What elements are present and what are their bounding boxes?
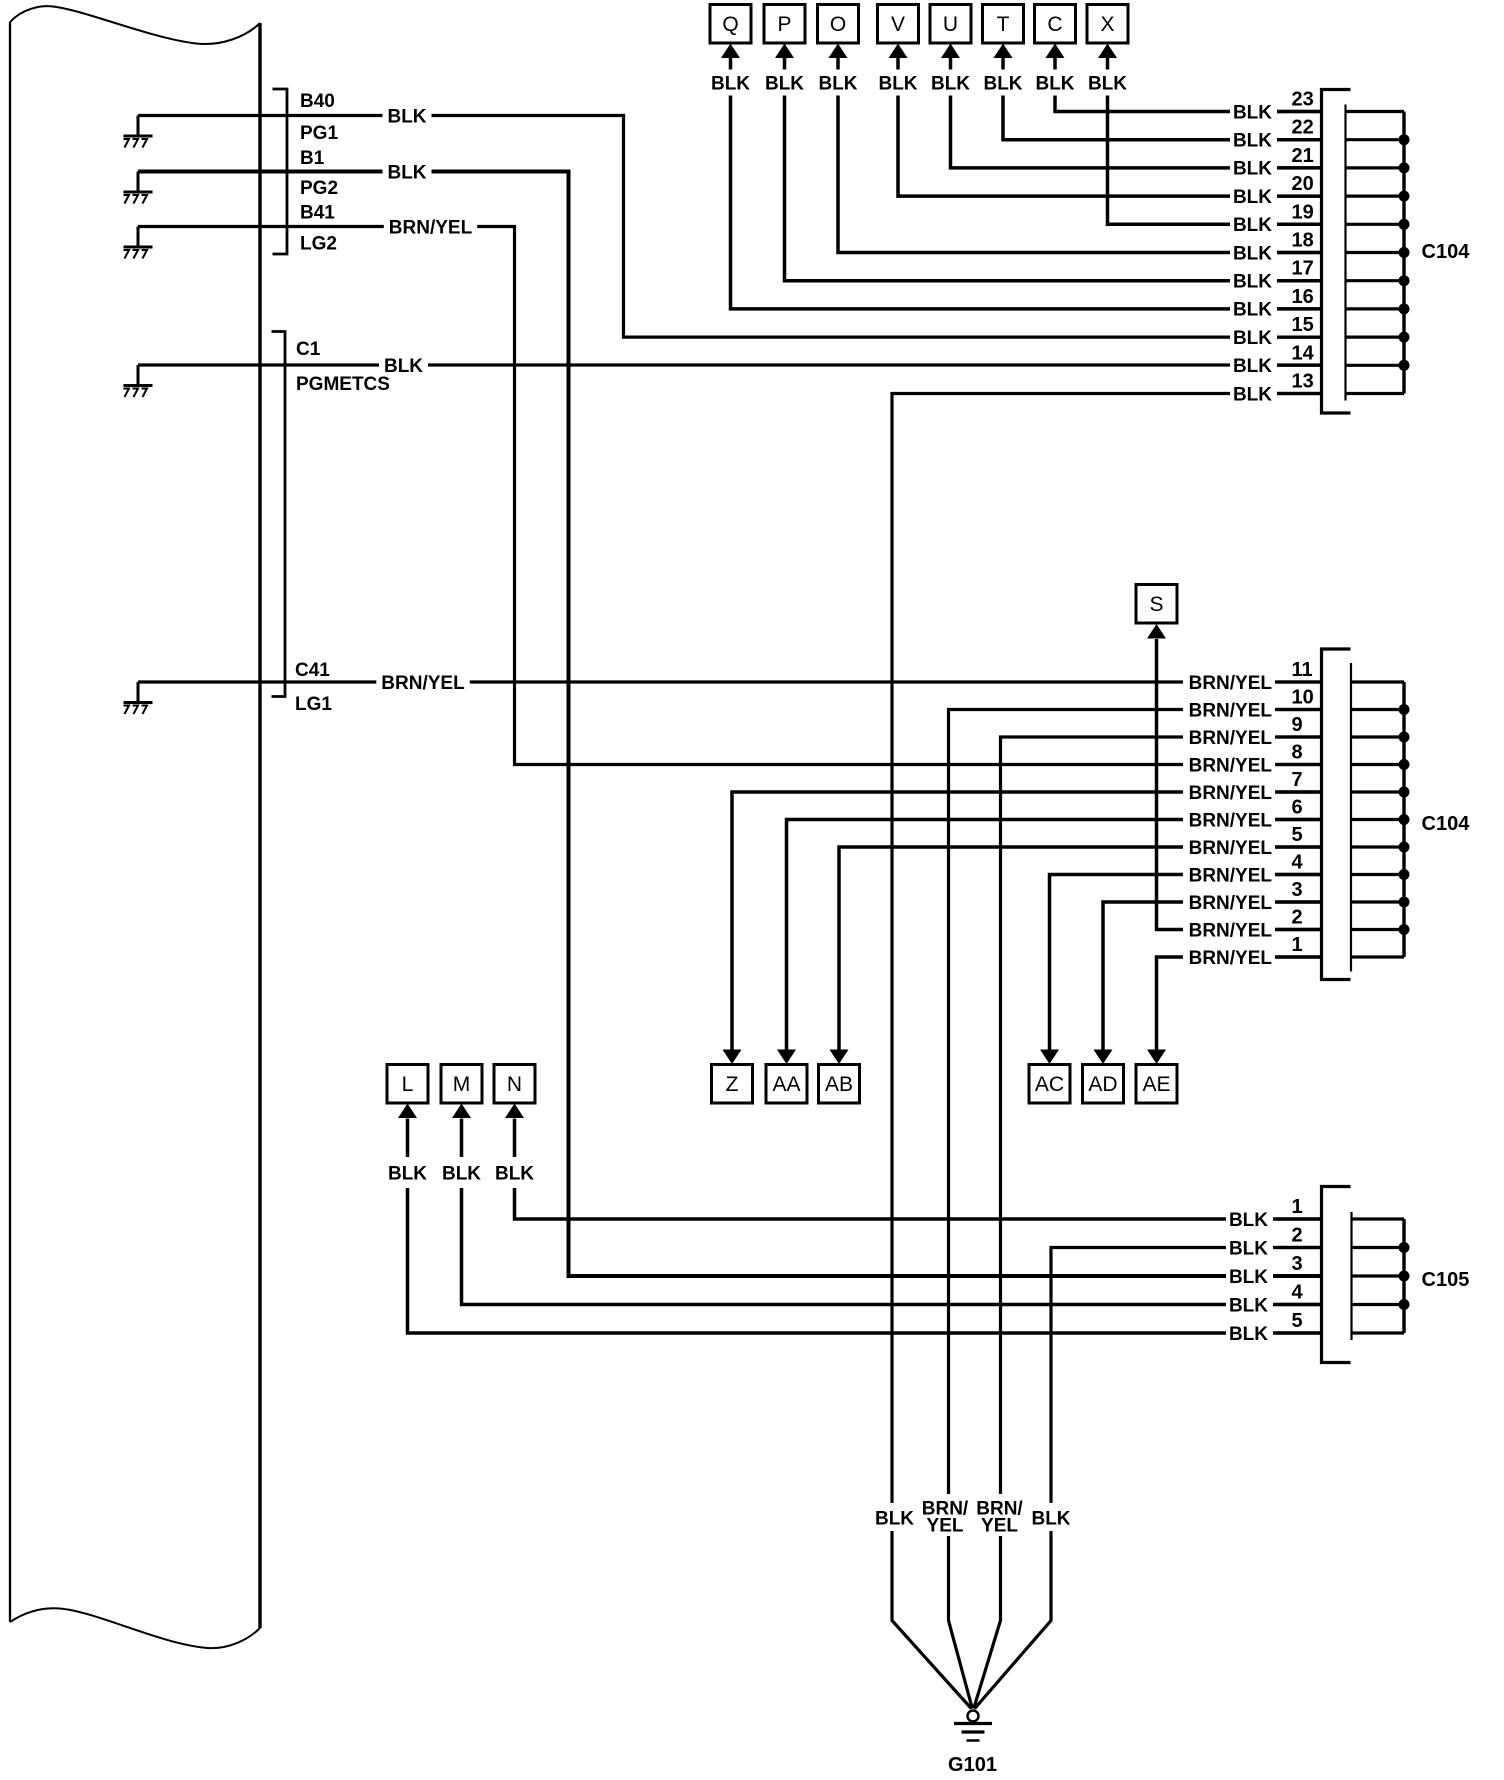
svg-text:23: 23 — [1292, 89, 1314, 111]
connector C104 internal bus — [1402, 112, 1405, 394]
svg-text:10: 10 — [1292, 687, 1314, 709]
wire label BLK (C104 pin 23) — [1230, 101, 1277, 122]
svg-text:BLK: BLK — [983, 73, 1022, 94]
wire label BLK (C104 pin 22) — [1230, 129, 1277, 150]
svg-text:V: V — [891, 13, 905, 36]
connector C104 pin 13 wire — [1277, 392, 1322, 395]
wire label BLK (C105 pin 4) — [1226, 1294, 1273, 1315]
svg-text:BRN/YEL: BRN/YEL — [1189, 920, 1273, 941]
ground symbol PG1 — [137, 116, 140, 137]
svg-text:7: 7 — [1292, 769, 1303, 791]
svg-text:BLK: BLK — [878, 73, 917, 94]
svg-text:BLK: BLK — [931, 73, 970, 94]
wire label BLK (O stem) — [814, 70, 863, 96]
destination box T — [983, 5, 1024, 44]
connector C105 pin 3 wire — [1277, 1274, 1322, 1277]
arrow into box AD — [1094, 1050, 1113, 1065]
wire C104 pin 9 (BRN/YEL) to G101 — [974, 737, 1322, 1709]
wire C41 (BRN/YEL) to C104 pin 11 — [138, 680, 1322, 683]
wire label BLK (M stem) — [437, 1157, 486, 1188]
svg-text:C104: C104 — [1422, 813, 1471, 835]
svg-text:4: 4 — [1292, 1282, 1304, 1304]
connector C104 pin 1 wire — [1277, 955, 1322, 958]
wire C104 pin 5 (BRN/YEL) to AB — [839, 847, 1322, 1050]
connector C104 bracket — [1322, 90, 1351, 414]
svg-text:BLK: BLK — [1233, 131, 1272, 152]
arrow into box AE — [1147, 1050, 1166, 1065]
connector C105 pin 4 wire — [1277, 1303, 1322, 1306]
wire label BLK (pin 13 ground wire) — [873, 1503, 916, 1531]
svg-text:BLK: BLK — [384, 356, 423, 377]
destination box AB — [819, 1065, 860, 1104]
connector C105 pin 2 wire — [1277, 1246, 1322, 1249]
wire label BLK (C104 pin 13) — [1230, 383, 1277, 404]
svg-text:AC: AC — [1035, 1073, 1064, 1096]
svg-text:BLK: BLK — [387, 106, 426, 127]
wire V to C104 pin 20 (BLK) — [898, 58, 1322, 197]
svg-text:BLK: BLK — [1088, 73, 1127, 94]
svg-text:BLK: BLK — [1229, 1324, 1268, 1345]
connector C104 pin 8 wire — [1277, 763, 1322, 766]
junction dot C104 pin 16 — [1399, 303, 1410, 314]
ground G101 symbol — [968, 1711, 979, 1722]
wire label BLK (C stem) — [1031, 70, 1080, 96]
junction dot C104 pin 22 — [1399, 134, 1410, 145]
svg-text:BLK: BLK — [1229, 1210, 1268, 1231]
svg-text:21: 21 — [1292, 145, 1314, 167]
wire C to C104 pin 23 (BLK) — [1055, 58, 1322, 112]
wire label BRN/YEL (C104 pin 4) — [1183, 864, 1275, 885]
ground symbol LG1 — [137, 682, 140, 703]
svg-text:6: 6 — [1292, 797, 1303, 819]
wire Q to C104 pin 16 (BLK) — [731, 58, 1322, 309]
svg-text:3: 3 — [1292, 879, 1303, 901]
connector C105 pin 5 wire — [1277, 1331, 1322, 1334]
junction dot C105 pin 4 — [1399, 1299, 1410, 1310]
wire label BLK (B1 row) — [383, 161, 432, 182]
wire C104 pin 2 to S (BRN/YEL) — [1157, 639, 1322, 930]
junction dot C104 pin 7 — [1399, 787, 1410, 798]
wire label BRN/YEL (B41 row) — [384, 216, 477, 237]
svg-text:BLK: BLK — [765, 73, 804, 94]
wire label BLK (C104 pin 20) — [1230, 186, 1277, 207]
svg-text:BLK: BLK — [875, 1509, 914, 1530]
svg-text:BLK: BLK — [1233, 300, 1272, 321]
connector C104 pin 18 wire — [1277, 251, 1322, 254]
svg-text:8: 8 — [1292, 742, 1303, 764]
wire label BLK (C105 pin 5) — [1226, 1323, 1273, 1344]
svg-text:AB: AB — [825, 1073, 853, 1096]
ground symbol PGMETCS — [137, 365, 140, 386]
connector C104 pin 16 wire — [1277, 307, 1322, 310]
svg-text:15: 15 — [1292, 314, 1314, 336]
arrow into box L — [398, 1104, 417, 1119]
connector C104 pin 10 wire — [1277, 708, 1322, 711]
connector C104 pin 17 wire — [1277, 279, 1322, 282]
wire label BLK (U stem) — [926, 70, 975, 96]
wire label BLK (B40 row) — [383, 105, 432, 126]
svg-text:1: 1 — [1292, 1196, 1303, 1218]
wire N (BLK) to C105 pin 1 — [515, 1119, 1322, 1220]
connector C104 pin 4 wire — [1277, 873, 1322, 876]
wire label BLK (Q stem) — [706, 70, 755, 96]
svg-text:BLK: BLK — [1229, 1267, 1268, 1288]
svg-text:C: C — [1047, 13, 1062, 36]
wire C1 (BLK) to C104 pin 14 — [138, 363, 1322, 366]
wire C104 pin 13 (BLK) to G101 — [892, 394, 1322, 1709]
svg-text:L: L — [402, 1073, 414, 1096]
wire T to C104 pin 22 (BLK) — [1003, 58, 1322, 140]
destination box Z — [712, 1065, 753, 1104]
wire label BLK (L stem) — [383, 1157, 432, 1188]
connector C104 pin 2 wire — [1277, 928, 1322, 931]
arrow into box AA — [777, 1050, 796, 1065]
svg-text:S: S — [1149, 593, 1163, 616]
svg-text:BRN/YEL: BRN/YEL — [1189, 783, 1273, 804]
svg-text:BLK: BLK — [1035, 73, 1074, 94]
svg-text:C1: C1 — [296, 339, 321, 360]
destination box C — [1035, 5, 1076, 44]
svg-text:19: 19 — [1292, 201, 1314, 223]
svg-text:5: 5 — [1292, 824, 1303, 846]
svg-text:BRN/YEL: BRN/YEL — [1189, 728, 1273, 749]
arrow into box P — [775, 44, 794, 59]
arrow into box AC — [1040, 1050, 1059, 1065]
junction dot C104 pin 4 — [1399, 869, 1410, 880]
wire label BLK (C104 pin 21) — [1230, 157, 1277, 178]
connector C104 pin 9 wire — [1277, 735, 1322, 738]
connector C104 internal bus — [1402, 682, 1405, 957]
arrow into box Q — [721, 44, 740, 59]
wire B1 (BLK, heavy) to C105 pin 3 — [138, 172, 1322, 1277]
junction dot C104 pin 8 — [1399, 759, 1410, 770]
svg-text:17: 17 — [1292, 258, 1314, 280]
svg-text:P: P — [777, 13, 791, 36]
connector C104 pin 15 wire — [1277, 336, 1322, 339]
wire label BRN/YEL (C104 pin 3) — [1183, 892, 1275, 913]
wire C104 pin 1 (BRN/YEL) to AE — [1157, 957, 1322, 1050]
destination box AE — [1136, 1065, 1177, 1104]
svg-text:BRN/YEL: BRN/YEL — [1189, 865, 1273, 886]
svg-text:YEL: YEL — [927, 1516, 964, 1537]
svg-text:T: T — [997, 13, 1010, 36]
svg-text:BRN/YEL: BRN/YEL — [1189, 700, 1273, 721]
wire C104 pin 6 (BRN/YEL) to AA — [787, 820, 1322, 1051]
svg-text:22: 22 — [1292, 117, 1314, 139]
svg-text:3: 3 — [1292, 1253, 1303, 1275]
svg-text:16: 16 — [1292, 286, 1314, 308]
svg-text:G101: G101 — [948, 1754, 997, 1776]
svg-text:AE: AE — [1142, 1073, 1170, 1096]
arrow into box M — [452, 1104, 471, 1119]
svg-text:9: 9 — [1292, 714, 1303, 736]
wire label BLK (C104 pin 18) — [1230, 242, 1277, 263]
connector C104 inner face line — [1344, 105, 1346, 401]
wire label BRN/YEL (C104 pin 9) — [1183, 727, 1275, 748]
arrow into box S — [1147, 624, 1166, 639]
wire label BLK (N stem) — [490, 1157, 539, 1188]
connector C105 internal bus — [1402, 1219, 1405, 1333]
svg-text:4: 4 — [1292, 852, 1304, 874]
arrow into box C — [1046, 44, 1065, 59]
wire label BLK (T stem) — [979, 70, 1028, 96]
svg-text:BLK: BLK — [1229, 1295, 1268, 1316]
svg-text:5: 5 — [1292, 1310, 1303, 1332]
junction dot C104 pin 19 — [1399, 219, 1410, 230]
svg-text:18: 18 — [1292, 230, 1314, 252]
wire C104 pin 4 (BRN/YEL) to AC — [1050, 875, 1322, 1051]
svg-text:BLK: BLK — [387, 162, 426, 183]
svg-text:C41: C41 — [295, 660, 330, 681]
destination box P — [764, 5, 805, 44]
svg-text:BLK: BLK — [1229, 1238, 1268, 1259]
svg-text:2: 2 — [1292, 907, 1303, 929]
svg-text:BRN/YEL: BRN/YEL — [381, 673, 465, 694]
pin-group bracket (C1/C41) — [272, 332, 286, 697]
wire label BRN/YEL (C104 pin 6) — [1183, 809, 1275, 830]
wire label BLK (C104 pin 15) — [1230, 327, 1277, 348]
wire label BRN/YEL (C104 pin 10) — [1183, 699, 1275, 720]
wire label BRN/YEL (C41 row) — [376, 672, 469, 693]
arrow into box N — [505, 1104, 524, 1119]
wire label BLK (C105 pin 3) — [1226, 1266, 1273, 1287]
svg-text:BLK: BLK — [1233, 102, 1272, 123]
wire label BLK (X stem) — [1083, 70, 1132, 96]
junction dot C105 pin 3 — [1399, 1271, 1410, 1282]
svg-text:BLK: BLK — [1233, 356, 1272, 377]
svg-text:BLK: BLK — [1031, 1509, 1070, 1530]
wire C104 pin 3 (BRN/YEL) to AD — [1103, 902, 1322, 1050]
svg-text:BRN/YEL: BRN/YEL — [1189, 810, 1273, 831]
svg-text:LG1: LG1 — [295, 694, 332, 715]
wire label BLK (C104 pin 16) — [1230, 298, 1277, 319]
svg-text:BRN/YEL: BRN/YEL — [389, 217, 473, 238]
wire label BRN/YEL (C104 pin 7) — [1183, 782, 1275, 803]
wire B41 (BRN/YEL) to C104 pin 8 — [138, 227, 1322, 765]
svg-text:C105: C105 — [1422, 1269, 1470, 1291]
connector C104 pin 7 wire — [1277, 790, 1322, 793]
wire M (BLK) to C105 pin 4 — [462, 1119, 1322, 1305]
arrow into box T — [994, 44, 1013, 59]
svg-text:BLK: BLK — [1233, 272, 1272, 293]
pin-group bracket (B40/B1/B41) — [273, 89, 288, 254]
wire label BRN/YEL (pin 10 ground wire) — [923, 1494, 968, 1536]
svg-text:2: 2 — [1292, 1225, 1303, 1247]
svg-text:BRN/YEL: BRN/YEL — [1189, 673, 1273, 694]
connector C104 pin 3 wire — [1277, 900, 1322, 903]
connector C105 pin 1 wire — [1277, 1217, 1322, 1220]
connector C104 pin 21 wire — [1277, 166, 1322, 169]
wire C104 pin 10 (BRN/YEL) to G101 — [949, 710, 1322, 1709]
wire label BLK (C105 pin 2) — [1226, 1237, 1273, 1258]
wire label BRN/YEL (C104 pin 11) — [1183, 672, 1275, 693]
svg-text:BLK: BLK — [388, 1163, 427, 1184]
junction dot C104 pin 2 — [1399, 924, 1410, 935]
svg-text:BRN/YEL: BRN/YEL — [1189, 893, 1273, 914]
svg-text:20: 20 — [1292, 173, 1314, 195]
arrow into box Z — [723, 1050, 742, 1065]
svg-text:AD: AD — [1088, 1073, 1117, 1096]
svg-text:BLK: BLK — [1233, 328, 1272, 349]
svg-text:13: 13 — [1292, 371, 1314, 393]
wire C105 pin 2 (BLK) to G101 — [975, 1248, 1322, 1709]
destination box AA — [766, 1065, 807, 1104]
wire label BLK (C104 pin 14) — [1230, 355, 1277, 376]
wire U to C104 pin 21 (BLK) — [951, 58, 1322, 168]
svg-text:BRN/YEL: BRN/YEL — [1189, 948, 1273, 969]
svg-text:O: O — [830, 13, 846, 36]
destination box AD — [1083, 1065, 1124, 1104]
svg-text:B41: B41 — [300, 203, 335, 224]
svg-text:YEL: YEL — [981, 1516, 1018, 1537]
connector C104 pin 22 wire — [1277, 138, 1322, 141]
wire C104 pin 7 (BRN/YEL) to Z — [732, 792, 1322, 1050]
wire P to C104 pin 17 (BLK) — [785, 58, 1322, 281]
connector C104 pin 14 wire — [1277, 364, 1322, 367]
svg-text:14: 14 — [1292, 342, 1315, 364]
wire label BLK (C104 pin 17) — [1230, 270, 1277, 291]
svg-text:B40: B40 — [300, 91, 335, 112]
svg-text:11: 11 — [1292, 659, 1313, 681]
wire label BLK (P stem) — [760, 70, 809, 96]
svg-text:Z: Z — [726, 1073, 739, 1096]
wire X to C104 pin 19 (BLK) — [1108, 58, 1322, 225]
wire label BRN/YEL (C104 pin 5) — [1183, 837, 1275, 858]
svg-text:C104: C104 — [1422, 241, 1471, 263]
svg-text:BLK: BLK — [1233, 243, 1272, 264]
junction dot C104 pin 14 — [1399, 360, 1410, 371]
svg-text:U: U — [943, 13, 958, 36]
svg-text:BLK: BLK — [1233, 159, 1272, 180]
svg-text:M: M — [453, 1073, 471, 1096]
svg-text:PGMETCS: PGMETCS — [296, 374, 390, 395]
junction dot C104 pin 17 — [1399, 275, 1410, 286]
svg-text:Q: Q — [722, 13, 738, 36]
junction dot C104 pin 10 — [1399, 704, 1410, 715]
svg-text:N: N — [507, 1073, 522, 1096]
connector C104 pin 6 wire — [1277, 818, 1322, 821]
arrow into box U — [941, 44, 960, 59]
junction dot C104 pin 18 — [1399, 247, 1410, 258]
junction dot C104 pin 3 — [1399, 897, 1410, 908]
arrow into box X — [1098, 44, 1117, 59]
destination box V — [878, 5, 919, 44]
destination box O — [818, 5, 859, 44]
wire label BLK (C1 row) — [379, 355, 428, 376]
arrow into box O — [829, 44, 848, 59]
arrow into box V — [889, 44, 908, 59]
junction dot C104 pin 20 — [1399, 191, 1410, 202]
destination box Q — [710, 5, 751, 44]
destination box AC — [1029, 1065, 1070, 1104]
junction dot C104 pin 9 — [1399, 732, 1410, 743]
connector C104 pin 23 wire — [1277, 110, 1322, 113]
arrow into box AB — [830, 1050, 849, 1065]
ground symbol PG2 — [137, 172, 140, 193]
wire label BRN/YEL (C104 pin 1) — [1183, 947, 1275, 968]
junction dot C105 pin 2 — [1399, 1242, 1410, 1253]
wire L (BLK) to C105 pin 5 — [408, 1119, 1322, 1334]
svg-text:B1: B1 — [300, 148, 325, 169]
destination box S — [1136, 585, 1177, 624]
svg-text:BRN/YEL: BRN/YEL — [1189, 755, 1273, 776]
connector C104 pin 5 wire — [1277, 845, 1322, 848]
svg-text:PG2: PG2 — [300, 178, 338, 199]
connector C104 pin 20 wire — [1277, 195, 1322, 198]
junction dot C104 pin 15 — [1399, 332, 1410, 343]
svg-text:BLK: BLK — [711, 73, 750, 94]
junction dot C104 pin 5 — [1399, 842, 1410, 853]
svg-text:BLK: BLK — [1233, 384, 1272, 405]
wire label BLK (C105 pin 2 ground wire) — [1030, 1503, 1073, 1531]
connector C104 bracket — [1322, 649, 1351, 980]
destination box M — [441, 1065, 482, 1104]
connector C104 pin 19 wire — [1277, 223, 1322, 226]
wire label BRN/YEL (C104 pin 8) — [1183, 754, 1275, 775]
svg-text:BLK: BLK — [1233, 215, 1272, 236]
svg-text:BLK: BLK — [442, 1163, 481, 1184]
wire B40 (BLK) to C104 pin 15 — [138, 116, 1322, 338]
wire label BLK (V stem) — [874, 70, 923, 96]
svg-text:BLK: BLK — [1233, 187, 1272, 208]
connector C105 inner face line — [1350, 1212, 1352, 1340]
ground symbol LG2 — [137, 227, 140, 248]
wire label BRN/YEL (C104 pin 2) — [1183, 919, 1275, 940]
connector C104 inner face line — [1350, 663, 1352, 972]
destination box U — [930, 5, 971, 44]
destination box N — [494, 1065, 535, 1104]
svg-text:X: X — [1100, 13, 1114, 36]
wire label BLK (C105 pin 1) — [1226, 1209, 1273, 1230]
wire O to C104 pin 18 (BLK) — [838, 58, 1322, 253]
svg-text:AA: AA — [772, 1073, 800, 1096]
junction dot C104 pin 6 — [1399, 814, 1410, 825]
connector C105 bracket — [1322, 1187, 1351, 1363]
svg-text:BLK: BLK — [495, 1163, 534, 1184]
svg-text:PG1: PG1 — [300, 123, 338, 144]
svg-text:1: 1 — [1292, 934, 1303, 956]
svg-text:BLK: BLK — [818, 73, 857, 94]
svg-text:LG2: LG2 — [300, 234, 337, 255]
svg-text:BRN/YEL: BRN/YEL — [1189, 838, 1273, 859]
destination box X — [1087, 5, 1128, 44]
wire label BRN/YEL (pin 9 ground wire) — [977, 1494, 1022, 1536]
connector C104 pin 11 wire — [1277, 680, 1322, 683]
wire label BLK (C104 pin 19) — [1230, 214, 1277, 235]
destination box L — [387, 1065, 428, 1104]
ECU component outline strip (torn edges) — [10, 6, 260, 44]
junction dot C104 pin 21 — [1399, 162, 1410, 173]
